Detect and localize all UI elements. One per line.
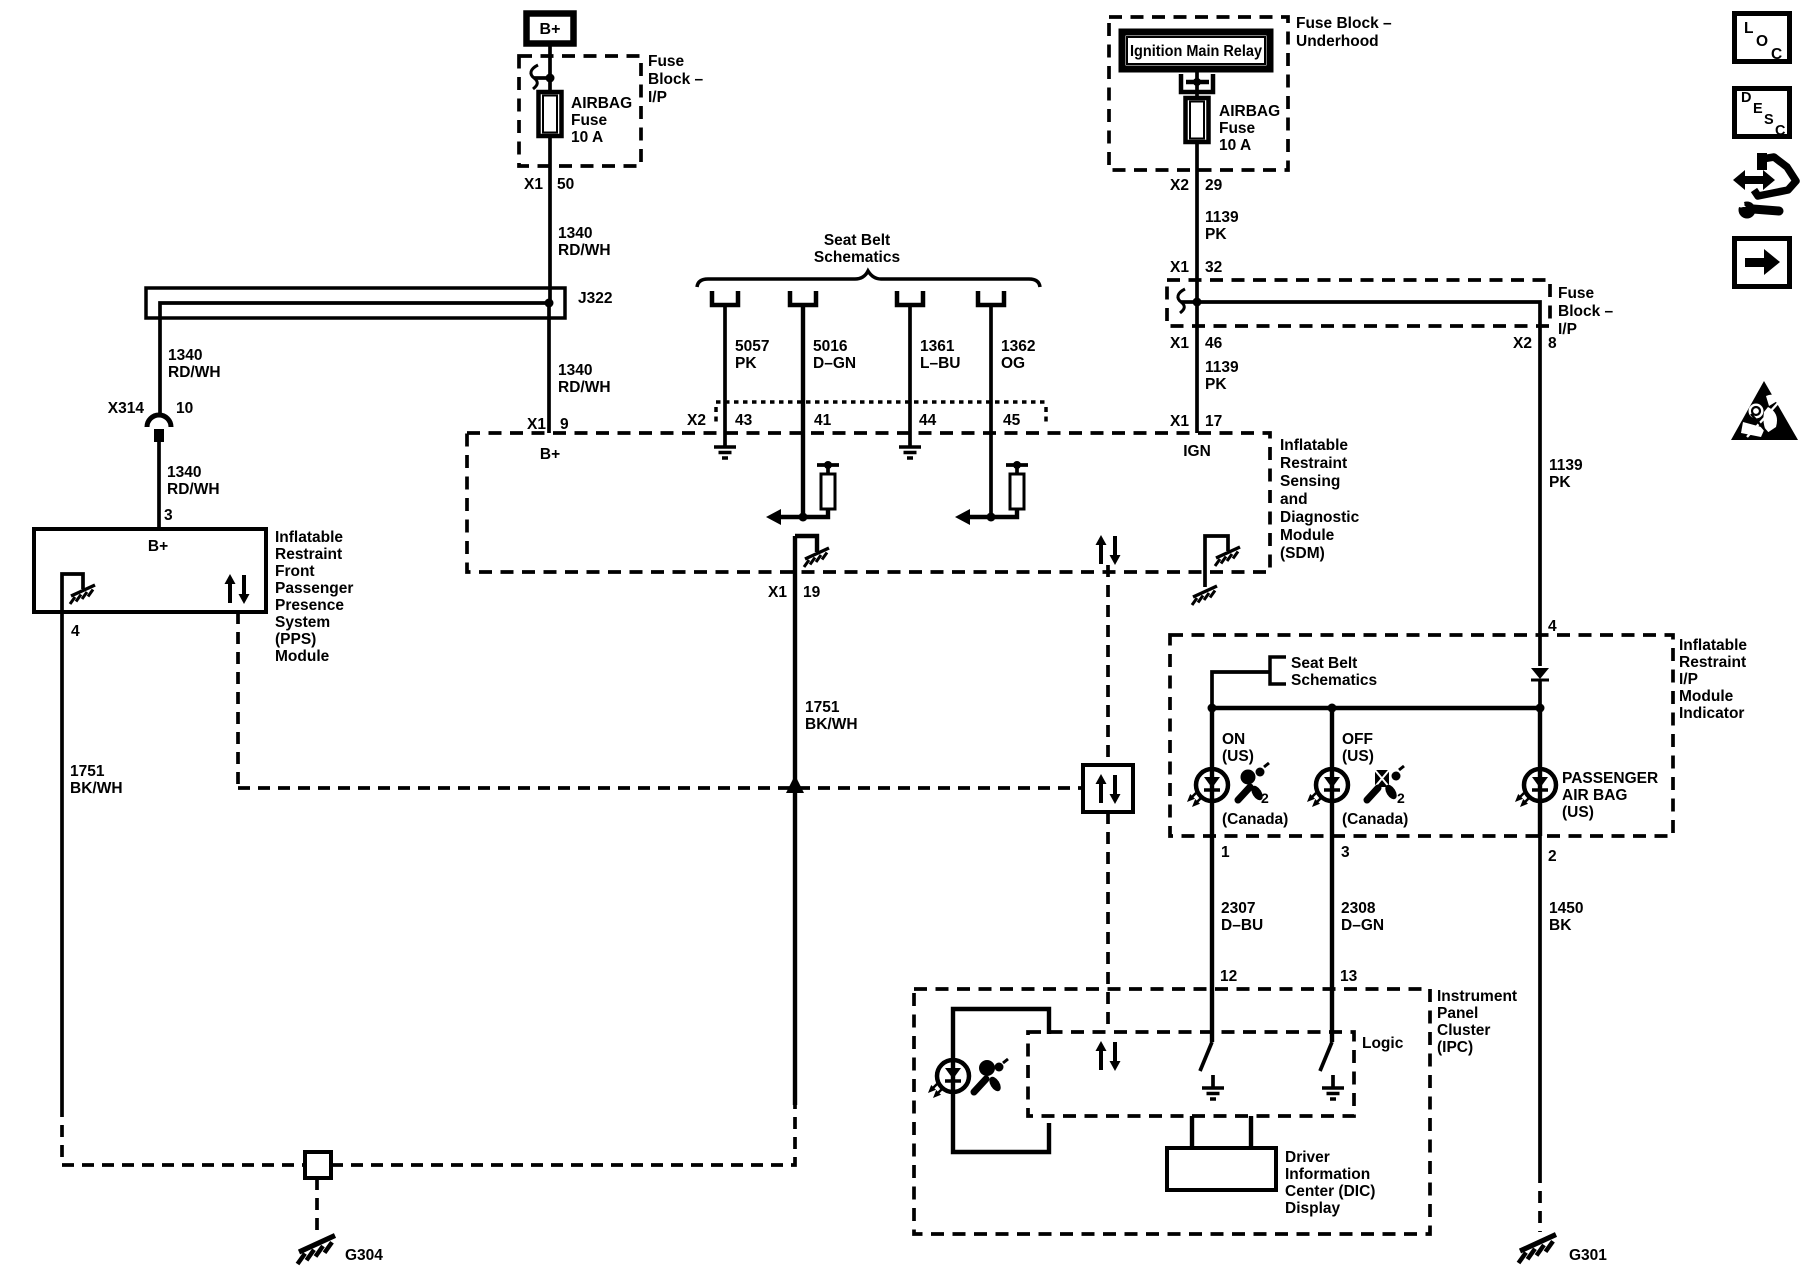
svg-text:2: 2 xyxy=(1397,790,1405,806)
svg-text:Block –: Block – xyxy=(1558,303,1614,320)
label 1139 PK middle xyxy=(1205,359,1239,393)
junction dot J322 xyxy=(545,299,554,308)
chassis ground G301 xyxy=(1519,1235,1557,1264)
svg-text:X2: X2 xyxy=(1170,177,1189,194)
resistor pin 41 xyxy=(821,474,835,509)
pin 41 pullup arrow wire xyxy=(780,509,828,517)
connector seat belt 1 xyxy=(712,291,738,305)
icon forward arrow box xyxy=(1735,239,1790,287)
dashed wire bottom run xyxy=(331,1105,795,1165)
logic updown arrows xyxy=(1096,1041,1121,1071)
arrowhead on 1751 wire junction xyxy=(786,775,804,793)
chassis ground X1 19 hook xyxy=(804,548,829,567)
svg-text:D–BU: D–BU xyxy=(1221,917,1263,934)
svg-text:Indicator: Indicator xyxy=(1679,705,1744,722)
chassis ground SDM bottom xyxy=(1192,586,1217,605)
dashed logic wire SDM to arrowbox xyxy=(1106,565,1110,765)
svg-text:E: E xyxy=(1753,101,1763,117)
svg-text:Presence: Presence xyxy=(275,597,344,614)
svg-text:X1: X1 xyxy=(524,176,543,193)
switch pin 12 xyxy=(1200,1042,1212,1071)
label 2308 D-GN xyxy=(1341,900,1384,934)
svg-text:Passenger: Passenger xyxy=(275,580,353,597)
label 1340 RD/WH to PPS xyxy=(167,464,220,498)
icon diagnostic arrows and wrench xyxy=(1733,153,1796,219)
svg-text:4: 4 xyxy=(1548,618,1557,635)
svg-text:1139: 1139 xyxy=(1205,209,1239,226)
SDM updown arrows xyxy=(1096,535,1121,565)
label ON (US) xyxy=(1222,731,1254,765)
label AIRBAG Fuse 10 A xyxy=(571,95,632,146)
LED indicator passenger xyxy=(1515,769,1556,807)
wire from B+ into fuse block xyxy=(548,44,552,92)
ground pin 44 xyxy=(899,447,921,458)
wire pin3 to IPC xyxy=(1330,836,1334,1042)
svg-text:Fuse Block –: Fuse Block – xyxy=(1296,15,1392,32)
svg-text:IGN: IGN xyxy=(1183,443,1211,460)
icon airbag warning triangle xyxy=(1731,381,1798,440)
svg-text:AIRBAG: AIRBAG xyxy=(571,95,632,112)
icon DESC box xyxy=(1735,89,1790,140)
svg-text:Restraint: Restraint xyxy=(1280,455,1347,472)
svg-text:AIR BAG: AIR BAG xyxy=(1562,787,1627,804)
svg-text:BK/WH: BK/WH xyxy=(805,716,858,733)
svg-text:D: D xyxy=(1741,90,1751,106)
svg-text:Module: Module xyxy=(275,648,330,665)
svg-text:3: 3 xyxy=(164,507,173,524)
wire logic to DIC left xyxy=(1190,1116,1194,1148)
svg-text:Module: Module xyxy=(1679,688,1734,705)
LED indicator ON xyxy=(1187,769,1228,807)
svg-text:G301: G301 xyxy=(1569,1247,1607,1264)
svg-text:OFF: OFF xyxy=(1342,731,1373,748)
svg-text:5057: 5057 xyxy=(735,338,769,355)
relay terminal cup xyxy=(1181,74,1213,92)
ground switch 13 xyxy=(1322,1088,1344,1099)
indicator bus wire xyxy=(1212,706,1540,710)
svg-text:RD/WH: RD/WH xyxy=(168,364,221,381)
label X314 10 xyxy=(108,400,193,417)
junction dot pin41 xyxy=(799,513,808,522)
svg-text:L: L xyxy=(1744,20,1753,37)
svg-text:Inflatable: Inflatable xyxy=(1280,437,1348,454)
B+ battery box xyxy=(527,14,574,44)
wire seat belt 4 xyxy=(989,306,993,517)
dashed wire logic horizontal xyxy=(238,786,1083,790)
label X2 29 xyxy=(1170,177,1223,194)
svg-text:4: 4 xyxy=(71,623,80,640)
svg-text:G304: G304 xyxy=(345,1247,383,1264)
svg-text:Restraint: Restraint xyxy=(1679,654,1746,671)
svg-text:10 A: 10 A xyxy=(1219,137,1251,154)
wire fuse to J322 xyxy=(548,136,552,303)
svg-text:10: 10 xyxy=(176,400,193,417)
svg-text:RD/WH: RD/WH xyxy=(558,379,611,396)
label 1751 BK/WH left xyxy=(70,763,123,797)
svg-text:12: 12 xyxy=(1220,968,1237,985)
label 5057 PK xyxy=(735,338,769,372)
svg-text:AIRBAG: AIRBAG xyxy=(1219,103,1280,120)
label 1340 RD/WH upper xyxy=(558,225,611,259)
connector X2 dotted line xyxy=(716,400,1046,404)
label AIRBAG Fuse 10 A underhood xyxy=(1219,103,1280,154)
svg-text:PK: PK xyxy=(735,355,757,372)
svg-text:System: System xyxy=(275,614,330,631)
wire LED2 xyxy=(1330,708,1334,836)
switch 13 ground stub xyxy=(1331,1075,1335,1088)
svg-text:50: 50 xyxy=(557,176,574,193)
PPS module box xyxy=(34,529,266,612)
wire pin2 to G301 xyxy=(1538,836,1542,1171)
dot resistor 41 xyxy=(824,461,832,469)
PPS updown arrows xyxy=(225,574,250,604)
svg-text:1340: 1340 xyxy=(168,347,202,364)
chassis ground SDM hook xyxy=(1215,547,1240,566)
svg-text:J322: J322 xyxy=(578,290,612,307)
wire X1 46 to SDM IGN xyxy=(1195,302,1199,433)
svg-text:Schematics: Schematics xyxy=(1291,672,1377,689)
airbag icon OFF xyxy=(1367,766,1405,806)
airbag icon ON xyxy=(1238,763,1269,806)
label 1362 OG xyxy=(1001,338,1035,372)
svg-text:1751: 1751 xyxy=(805,699,840,716)
label PASSENGER AIR BAG (US) xyxy=(1562,770,1658,821)
label 2307 D-BU xyxy=(1221,900,1263,934)
svg-text:1139: 1139 xyxy=(1205,359,1239,376)
connector seat belt 3 xyxy=(897,291,923,305)
logic dashed box xyxy=(1028,1032,1354,1116)
svg-text:X314: X314 xyxy=(108,400,145,417)
arrow box xyxy=(1083,765,1133,812)
svg-text:2308: 2308 xyxy=(1341,900,1376,917)
label 1340 RD/WH right branch xyxy=(558,362,611,396)
splice G304 square xyxy=(305,1152,331,1178)
label Seat Belt Schematics top xyxy=(814,232,900,266)
X1 19 ground hook in SDM xyxy=(795,536,817,552)
svg-text:19: 19 xyxy=(803,584,821,601)
LED indicator IPC xyxy=(928,1060,969,1098)
svg-text:1340: 1340 xyxy=(558,225,592,242)
svg-text:Ignition Main Relay: Ignition Main Relay xyxy=(1130,43,1262,60)
label Driver Information Center (DIC) Display xyxy=(1285,1149,1375,1217)
fuse AIRBAG 10A (I/P) xyxy=(539,92,562,136)
arrow box updown arrows xyxy=(1096,774,1121,804)
label Inflatable Restraint Sensing and Diagnostic Module (SDM) xyxy=(1280,437,1360,562)
wire seat belt 2 xyxy=(801,306,805,517)
fuse element squiggle xyxy=(531,65,538,89)
label X1 17 xyxy=(1170,413,1222,430)
svg-text:ON: ON xyxy=(1222,731,1245,748)
svg-text:D–GN: D–GN xyxy=(1341,917,1384,934)
label Fuse Block I/P right xyxy=(1558,285,1614,338)
svg-text:I/P: I/P xyxy=(1558,321,1577,338)
wire 1139 PK right down xyxy=(1538,326,1542,666)
svg-text:10 A: 10 A xyxy=(571,129,603,146)
wire logic to DIC right xyxy=(1249,1116,1253,1148)
label 1450 BK xyxy=(1549,900,1583,934)
svg-text:1: 1 xyxy=(1221,844,1230,861)
chassis ground in PPS xyxy=(70,585,95,604)
wire X1 19 down xyxy=(793,536,797,1105)
chassis ground G304 xyxy=(298,1236,336,1265)
dot I/P strip xyxy=(1193,298,1202,307)
pin 45 arrowhead xyxy=(955,509,970,525)
svg-text:X2: X2 xyxy=(687,412,706,429)
svg-text:17: 17 xyxy=(1205,413,1222,430)
svg-text:(PPS): (PPS) xyxy=(275,631,316,648)
J322 inner bus wire xyxy=(160,303,549,415)
svg-text:O: O xyxy=(1756,33,1768,50)
connector seat belt 2 xyxy=(790,291,816,305)
svg-text:2: 2 xyxy=(1548,848,1557,865)
svg-text:Logic: Logic xyxy=(1362,1035,1404,1052)
wire seat belt 3 xyxy=(908,306,912,447)
connector X314 xyxy=(147,415,171,442)
dashed logic wire arrowbox to IPC xyxy=(1106,812,1110,1032)
connector X2 end ticks xyxy=(716,407,1046,425)
wire PPS pin4 down xyxy=(60,612,64,1105)
svg-text:(Canada): (Canada) xyxy=(1222,811,1288,828)
svg-text:D–GN: D–GN xyxy=(813,355,856,372)
svg-text:and: and xyxy=(1280,491,1308,508)
label Fuse Block Underhood xyxy=(1296,15,1392,50)
wire fuse down to IP block xyxy=(1195,142,1199,302)
svg-text:2: 2 xyxy=(1261,790,1269,806)
svg-text:Underhood: Underhood xyxy=(1296,33,1379,50)
svg-text:1340: 1340 xyxy=(558,362,592,379)
svg-text:1139: 1139 xyxy=(1549,457,1583,474)
svg-text:46: 46 xyxy=(1205,335,1223,352)
ground pin 43 xyxy=(714,447,736,458)
fuse element squiggle I/P strip xyxy=(1178,289,1185,313)
PPS internal ground hook xyxy=(62,574,83,612)
svg-text:Fuse: Fuse xyxy=(1558,285,1595,302)
dot relay terminal xyxy=(1193,78,1201,86)
svg-text:8: 8 xyxy=(1548,335,1557,352)
svg-text:BK: BK xyxy=(1549,917,1572,934)
dashed wire 1450 bottom xyxy=(1538,1171,1542,1232)
svg-text:X1: X1 xyxy=(527,416,546,433)
svg-text:Module: Module xyxy=(1280,527,1335,544)
svg-text:Instrument: Instrument xyxy=(1437,988,1517,1005)
svg-text:3: 3 xyxy=(1341,844,1350,861)
svg-text:2307: 2307 xyxy=(1221,900,1255,917)
switch 12 ground stub xyxy=(1211,1075,1215,1088)
svg-text:L–BU: L–BU xyxy=(920,355,960,372)
dashed wire PPS logic down xyxy=(236,612,240,788)
wire squiggle to bus xyxy=(1181,300,1197,304)
label 1139 PK upper xyxy=(1205,209,1239,243)
IPC dashed box xyxy=(914,989,1430,1234)
label Seat Belt Schematics inner xyxy=(1291,655,1377,689)
wire diode to bus xyxy=(1538,679,1542,708)
wire J322 to SDM B+ xyxy=(547,303,551,433)
svg-text:1362: 1362 xyxy=(1001,338,1035,355)
wire relay to fuse xyxy=(1195,69,1199,98)
label OFF (US) xyxy=(1342,731,1374,765)
svg-text:X1: X1 xyxy=(1170,259,1189,276)
svg-text:Inflatable: Inflatable xyxy=(1679,637,1747,654)
svg-text:X1: X1 xyxy=(1170,335,1189,352)
SDM case ground wire xyxy=(1205,536,1228,587)
label X1 50 xyxy=(524,176,574,193)
svg-text:BK/WH: BK/WH xyxy=(70,780,123,797)
pin 45 pullup arrow wire xyxy=(969,509,1017,517)
svg-text:Display: Display xyxy=(1285,1200,1341,1217)
svg-text:RD/WH: RD/WH xyxy=(167,481,220,498)
svg-text:(US): (US) xyxy=(1342,748,1374,765)
svg-text:1361: 1361 xyxy=(920,338,955,355)
svg-text:PK: PK xyxy=(1549,474,1571,491)
svg-text:Sensing: Sensing xyxy=(1280,473,1340,490)
svg-text:Fuse: Fuse xyxy=(648,53,685,70)
svg-text:Seat Belt: Seat Belt xyxy=(824,232,890,249)
svg-text:X2: X2 xyxy=(1513,335,1532,352)
svg-text:B+: B+ xyxy=(540,446,560,463)
svg-text:1450: 1450 xyxy=(1549,900,1583,917)
svg-text:(IPC): (IPC) xyxy=(1437,1039,1473,1056)
wire X314 to PPS xyxy=(157,441,161,529)
svg-text:Block –: Block – xyxy=(648,71,704,88)
airbag icon IPC xyxy=(974,1059,1008,1093)
svg-text:41: 41 xyxy=(814,412,832,429)
label X2 8 xyxy=(1513,335,1557,352)
fuse block I/P dashed box xyxy=(519,56,641,166)
svg-text:1340: 1340 xyxy=(167,464,201,481)
svg-text:Schematics: Schematics xyxy=(814,249,900,266)
svg-text:Inflatable: Inflatable xyxy=(275,529,343,546)
svg-text:PASSENGER: PASSENGER xyxy=(1562,770,1658,787)
svg-text:43: 43 xyxy=(735,412,753,429)
svg-text:32: 32 xyxy=(1205,259,1222,276)
label Inflatable Restraint I/P Module Indicator xyxy=(1679,637,1747,722)
dashed wire G304 drop xyxy=(315,1178,319,1230)
svg-text:(US): (US) xyxy=(1222,748,1254,765)
svg-text:9: 9 xyxy=(560,416,569,433)
wire seat belt 1 xyxy=(723,306,727,447)
junction dot pin45 xyxy=(987,513,996,522)
fuse block I/P strip dashed box xyxy=(1167,280,1550,326)
Ignition Main Relay box xyxy=(1122,32,1270,69)
wire bracket to bus xyxy=(1212,672,1270,708)
label 1751 BK/WH right xyxy=(805,699,858,733)
svg-text:Center (DIC): Center (DIC) xyxy=(1285,1183,1375,1200)
IPC indicator sub box xyxy=(953,1009,1049,1152)
svg-text:13: 13 xyxy=(1340,968,1358,985)
label 5016 D-GN xyxy=(813,338,856,372)
svg-text:Restraint: Restraint xyxy=(275,546,342,563)
fuse block underhood dashed box xyxy=(1109,17,1288,170)
svg-text:Diagnostic: Diagnostic xyxy=(1280,509,1360,526)
splice J322 bus bar xyxy=(146,288,565,318)
wire LED1 xyxy=(1210,708,1214,836)
svg-text:B+: B+ xyxy=(148,538,168,555)
ground switch 12 xyxy=(1202,1088,1224,1099)
label 1340 RD/WH left branch xyxy=(168,347,221,381)
label 1361 L-BU xyxy=(920,338,960,372)
svg-text:C: C xyxy=(1771,46,1782,63)
svg-text:Cluster: Cluster xyxy=(1437,1022,1490,1039)
svg-text:Front: Front xyxy=(275,563,315,580)
seat belt schematics bracket xyxy=(1270,657,1286,684)
svg-text:RD/WH: RD/WH xyxy=(558,242,611,259)
connector seat belt 4 xyxy=(978,291,1004,305)
svg-text:Seat Belt: Seat Belt xyxy=(1291,655,1357,672)
resistor pin 45 xyxy=(1010,474,1024,509)
diode pin 4 xyxy=(1531,668,1549,680)
label Fuse Block I/P xyxy=(648,53,704,106)
LED indicator OFF xyxy=(1307,769,1348,807)
switch pin 13 xyxy=(1320,1042,1332,1071)
bus wire across I/P strip xyxy=(1197,302,1540,326)
label X1 46 xyxy=(1170,335,1223,352)
svg-text:(US): (US) xyxy=(1562,804,1594,821)
DIC display box xyxy=(1167,1148,1276,1190)
dot bus mid xyxy=(1328,704,1337,713)
dashed wire 1751 left bottom xyxy=(62,1105,305,1165)
junction dot xyxy=(546,74,555,83)
svg-text:Panel: Panel xyxy=(1437,1005,1478,1022)
svg-text:1751: 1751 xyxy=(70,763,105,780)
label Inflatable Restraint Front Passenger Presence System (PPS) Module xyxy=(275,529,353,665)
svg-text:PK: PK xyxy=(1205,376,1227,393)
wire pin1 to IPC xyxy=(1210,836,1214,1042)
svg-text:Fuse: Fuse xyxy=(1219,120,1256,137)
pin 41 arrowhead xyxy=(766,509,781,525)
svg-text:I/P: I/P xyxy=(1679,671,1698,688)
indicator module dashed box xyxy=(1170,635,1673,836)
svg-text:29: 29 xyxy=(1205,177,1223,194)
wire squiggle to fuse wire xyxy=(534,76,550,80)
svg-text:C: C xyxy=(1775,123,1786,139)
wire LED3 xyxy=(1538,708,1542,836)
resistor 45 supply bar xyxy=(1006,465,1028,474)
svg-text:5016: 5016 xyxy=(813,338,848,355)
svg-text:OG: OG xyxy=(1001,355,1025,372)
brace seat belt schematics xyxy=(697,271,1040,287)
label X1 19 xyxy=(768,584,821,601)
svg-text:S: S xyxy=(1764,112,1774,128)
svg-text:(SDM): (SDM) xyxy=(1280,545,1325,562)
svg-text:44: 44 xyxy=(919,412,937,429)
label X1 9 xyxy=(527,416,569,433)
dot bus left xyxy=(1208,704,1217,713)
svg-text:Information: Information xyxy=(1285,1166,1370,1183)
svg-text:Driver: Driver xyxy=(1285,1149,1330,1166)
fuse AIRBAG 10A underhood xyxy=(1186,98,1209,142)
svg-text:B+: B+ xyxy=(540,21,561,38)
relay terminal bar xyxy=(1186,80,1209,84)
dot resistor 45 xyxy=(1013,461,1021,469)
svg-text:Fuse: Fuse xyxy=(571,112,608,129)
svg-text:I/P: I/P xyxy=(648,89,667,106)
icon LOC box xyxy=(1735,14,1790,64)
dot bus right xyxy=(1536,704,1545,713)
svg-text:PK: PK xyxy=(1205,226,1227,243)
svg-text:45: 45 xyxy=(1003,412,1021,429)
label X1 32 xyxy=(1170,259,1222,276)
svg-text:X1: X1 xyxy=(768,584,787,601)
label Instrument Panel Cluster (IPC) xyxy=(1437,988,1517,1056)
SDM dashed box xyxy=(467,433,1270,572)
svg-text:X1: X1 xyxy=(1170,413,1189,430)
resistor 41 supply bar xyxy=(817,465,839,474)
svg-text:(Canada): (Canada) xyxy=(1342,811,1408,828)
label 1139 PK right xyxy=(1549,457,1583,491)
